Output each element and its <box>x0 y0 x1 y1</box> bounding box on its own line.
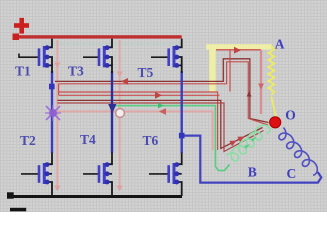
svg-text:A: A <box>275 36 285 51</box>
red annotation path B (upper run beside A winding) <box>59 92 218 150</box>
red arrow left on pink horizontal <box>159 108 166 115</box>
yellow duct vertical <box>209 47 215 92</box>
red left connector at leg1 <box>58 84 60 96</box>
red top horizontal <box>216 49 261 51</box>
T1 drain lead <box>47 39 53 48</box>
T6 stubs and dots <box>174 165 177 182</box>
T5 gate lead <box>151 56 170 58</box>
negative terminal square <box>7 192 14 198</box>
transistor T1 <box>19 39 52 73</box>
T5 gate bar <box>167 48 170 66</box>
T6 gate lead <box>149 173 170 175</box>
phase C blue wire <box>182 136 322 183</box>
T5 mid/source link <box>176 57 182 65</box>
svg-text:T1: T1 <box>15 63 31 78</box>
yellow duct horizontal <box>206 44 272 49</box>
T1 channel bar <box>43 46 46 67</box>
T2 stubs and dots <box>44 165 47 182</box>
T5 channel bar <box>173 46 176 67</box>
plus symbol <box>14 23 29 28</box>
winding A yellow zigzag <box>268 46 274 95</box>
red diag arrows on maroon D <box>229 138 238 146</box>
transistor T2 <box>21 153 52 196</box>
T4 stubs and dots <box>104 165 107 182</box>
transistor T3 <box>83 39 112 73</box>
leg3 blue rail <box>180 71 182 153</box>
T2 mid link <box>47 173 53 175</box>
svg-text:T4: T4 <box>80 132 96 147</box>
minus symbol <box>10 208 26 212</box>
positive terminal square <box>13 34 20 41</box>
T5 stubs and dots <box>174 48 177 66</box>
maroon annotation path A (to O via top staircase) <box>55 59 269 123</box>
node leg1 midpoint <box>49 84 55 90</box>
pink arrowheads <box>54 63 122 192</box>
T1 mid/source link <box>47 57 53 65</box>
T2 gate bar <box>38 165 41 183</box>
T3 gate bar <box>98 48 101 66</box>
T6 source lead <box>176 182 182 196</box>
node leg3 midpoint <box>179 133 185 139</box>
svg-text:C: C <box>287 166 297 181</box>
red vertical riser <box>229 50 231 92</box>
T4 mid link <box>107 173 113 175</box>
T3 drain lead <box>107 39 113 48</box>
T4 drain lead <box>107 153 113 165</box>
O star point red dot <box>270 117 281 128</box>
pink overlay horizontal <box>57 112 212 151</box>
T3 gate lead <box>83 56 100 58</box>
transistor T4 <box>83 153 112 196</box>
winding A tail to O <box>271 97 276 118</box>
T4 gate bar <box>98 165 101 183</box>
T6 drain lead <box>176 153 182 165</box>
red arrow left on maroon A <box>121 78 128 85</box>
pink overlay vertical leg2 <box>119 40 121 191</box>
T2 source lead <box>47 182 53 196</box>
svg-text:T3: T3 <box>68 63 84 78</box>
red arrow down beside A winding <box>258 84 264 90</box>
red bus <box>13 35 182 38</box>
green arrow right on green line <box>158 103 164 109</box>
white circle node <box>116 109 125 118</box>
svg-text:T6: T6 <box>143 133 159 148</box>
navy down arrow marker leg2 <box>108 104 116 114</box>
transistor T6 <box>149 153 182 196</box>
red arrow right on red B top <box>234 47 241 54</box>
purple X marker leg1 <box>45 105 61 121</box>
maroon twin of path D <box>57 103 263 152</box>
T1 stubs and dots <box>44 48 47 66</box>
T6 gate bar <box>167 165 170 183</box>
T1 gate lead <box>19 54 40 58</box>
svg-text:T2: T2 <box>20 133 36 148</box>
winding C blue coil <box>279 128 318 176</box>
black bus <box>7 195 182 198</box>
green coil arrows <box>244 144 250 149</box>
transistor T5 <box>151 39 182 73</box>
T1 gate bar <box>38 48 41 66</box>
T3 channel bar <box>103 46 106 67</box>
T3 mid/source link <box>107 57 113 65</box>
svg-text:T5: T5 <box>138 65 154 80</box>
winding B green coil <box>226 125 270 161</box>
pink overlay vertical leg1 <box>57 40 212 191</box>
T3 stubs and dots <box>104 48 107 66</box>
ghost teal line top <box>42 43 181 45</box>
ghost teal line middle <box>57 97 205 99</box>
green phase-B path <box>114 106 230 171</box>
svg-text:B: B <box>248 165 257 180</box>
T2 drain lead <box>47 153 53 165</box>
salmon drop beside winding A <box>260 50 262 114</box>
red arrow right on red C <box>155 92 162 99</box>
red arrow up on maroon A right vertical <box>247 92 252 97</box>
red annotation path C <box>59 94 220 96</box>
maroon annotation path D (lower staircase diagonal to O) <box>57 100 262 148</box>
T4 gate lead <box>83 173 100 175</box>
T2 gate lead <box>21 173 40 175</box>
leg1 blue rail <box>51 71 53 153</box>
T4 channel bar <box>103 163 106 184</box>
T6 channel bar <box>173 163 176 184</box>
svg-text:O: O <box>285 107 296 122</box>
red annotation twin of path A <box>59 62 268 125</box>
T5 drain lead <box>176 39 182 48</box>
T6 mid link <box>176 173 182 175</box>
T2 channel bar <box>43 163 46 184</box>
leg2 navy rail <box>111 71 113 153</box>
T4 source lead <box>107 182 113 196</box>
